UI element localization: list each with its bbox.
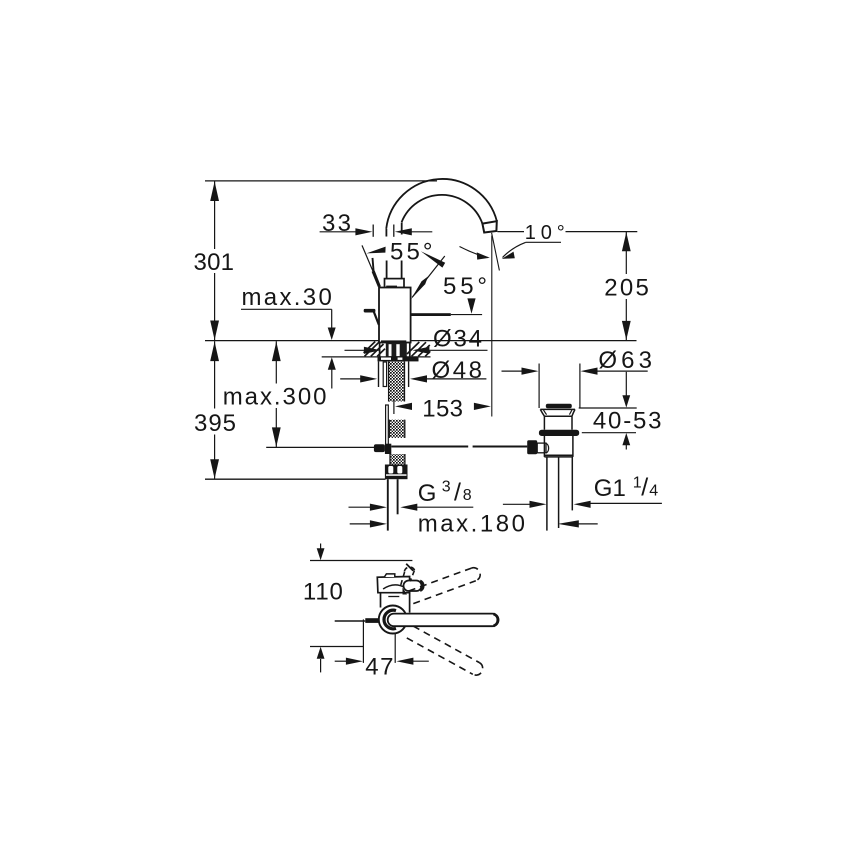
left lever thick segment — [372, 271, 381, 287]
drain plug cap — [546, 404, 572, 409]
pop-up rod upper — [383, 362, 386, 387]
right lever thick segment — [411, 276, 428, 299]
dimension 33 with ticks — [320, 210, 433, 237]
svg-text:Ø63: Ø63 — [598, 347, 652, 374]
escutcheon edges below deck — [378, 361, 380, 387]
svg-text:395: 395 — [194, 410, 236, 437]
threaded shank upper segment — [389, 362, 405, 402]
drain tailpipe — [547, 457, 572, 531]
top view reference line (110 top) — [310, 560, 412, 562]
dimension Ø63 — [502, 347, 653, 408]
horizontal pop-up rod — [391, 446, 527, 448]
spout arc (outer and inner) — [386, 179, 497, 229]
dimension max.180 — [350, 511, 598, 538]
dimension 47 — [335, 619, 429, 680]
lever bar right — [411, 313, 482, 316]
svg-text:10°: 10° — [525, 222, 565, 244]
arrow pointing down to lever bar — [467, 298, 475, 313]
top view body — [381, 593, 410, 613]
dimension max.300 — [223, 341, 327, 447]
svg-text:8: 8 — [463, 487, 472, 504]
threaded shank middle segment — [389, 420, 405, 438]
deck bottom line — [322, 356, 431, 358]
pop-up rod lower — [386, 405, 389, 452]
svg-text:/: / — [641, 474, 648, 502]
drain body — [544, 436, 573, 457]
lower dashed lever — [407, 626, 483, 675]
label 55 degrees (left) with halo — [385, 239, 437, 266]
left lever tilt line — [362, 245, 380, 287]
top reference line (spout top) — [205, 180, 437, 182]
threaded shank bottom segment — [390, 454, 405, 466]
svg-text:G1: G1 — [594, 475, 626, 502]
max.300 reference line — [266, 446, 376, 448]
steep dashed lever (raised) — [400, 567, 415, 588]
spout tip / aerator — [482, 221, 496, 232]
right lever tilt line — [412, 256, 445, 297]
svg-text:3: 3 — [442, 478, 451, 495]
hose nuts — [385, 465, 408, 480]
label G1 1/4 — [503, 474, 662, 508]
box top notch — [384, 574, 394, 577]
svg-text:Ø34: Ø34 — [433, 325, 482, 352]
svg-text:47: 47 — [365, 654, 393, 681]
svg-text:301: 301 — [194, 249, 235, 276]
drain flange — [540, 409, 575, 429]
svg-text:205: 205 — [604, 275, 649, 302]
right arc arrowhead — [421, 251, 445, 267]
shank stack between deck lines — [379, 343, 381, 357]
deck hatch right — [407, 342, 430, 356]
pop-up knob left — [364, 309, 379, 325]
svg-text:/: / — [454, 479, 461, 507]
faucet base band — [381, 340, 406, 342]
deck reference line — [205, 340, 637, 342]
dimension Ø48 — [340, 357, 486, 384]
box inner curve — [383, 585, 405, 589]
spout pill (top view) — [388, 614, 499, 627]
dimension 301 — [194, 181, 235, 340]
drain clevis — [527, 440, 537, 454]
svg-text:110: 110 — [303, 578, 343, 605]
dimension 40-53 — [579, 372, 662, 450]
svg-text:max.300: max.300 — [223, 384, 327, 411]
bottom reference line (395) — [205, 478, 386, 480]
base circle — [379, 606, 407, 634]
svg-text:55°: 55° — [443, 273, 487, 300]
dimension 205 — [604, 232, 649, 340]
svg-text:Ø48: Ø48 — [432, 357, 483, 384]
cartridge cap — [385, 279, 405, 288]
spout axis line (10 deg) — [492, 233, 500, 271]
drain seal band — [539, 430, 579, 436]
inner thick crescent — [384, 610, 396, 629]
backnut band — [378, 357, 419, 362]
label G 3/8 — [349, 478, 474, 511]
svg-text:G: G — [418, 480, 437, 507]
lever stub — [403, 581, 424, 595]
top view pop-up rod — [335, 618, 380, 623]
spout left limb (interrupted by 55-degree label) — [386, 223, 401, 280]
solid diagonal mark above box — [406, 564, 413, 571]
upper dashed lever — [409, 568, 481, 604]
dimension 395 — [194, 341, 236, 479]
dimension 153 — [394, 396, 491, 423]
svg-text:40-53: 40-53 — [593, 407, 662, 434]
faucet body — [379, 288, 411, 343]
label max.30 with leader and thickness arrows — [241, 284, 336, 388]
svg-text:55°: 55° — [390, 239, 433, 266]
top view cartridge box — [377, 577, 409, 593]
left arc arrowhead — [366, 247, 385, 254]
vertical reference line from spout tip — [491, 236, 493, 417]
dimension Ø34 — [345, 325, 488, 354]
supply hoses — [387, 479, 389, 530]
svg-text:max.30: max.30 — [242, 284, 332, 311]
top view lower line (110 bottom) — [310, 646, 363, 648]
rod clamp — [374, 444, 385, 452]
svg-text:max.180: max.180 — [418, 511, 525, 538]
dimension 110 — [303, 544, 343, 673]
svg-text:4: 4 — [649, 483, 658, 500]
label 10 degrees with angle arrows — [460, 222, 638, 259]
svg-text:153: 153 — [422, 396, 463, 423]
deck hatch left — [364, 342, 385, 357]
